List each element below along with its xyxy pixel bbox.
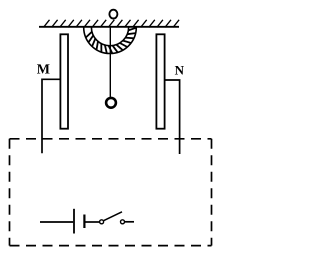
pendulum ball	[106, 98, 116, 108]
protractor scale hatch ticks	[86, 28, 137, 54]
battery short plate	[83, 215, 85, 229]
wire from switch	[125, 221, 134, 223]
pendulum string	[109, 27, 111, 98]
wire battery to switch	[86, 221, 100, 223]
dashed box right edge	[211, 139, 213, 246]
svg-text:N: N	[175, 63, 185, 78]
wire from plate M down into box	[42, 79, 60, 153]
plate N	[156, 34, 164, 128]
switch lever	[104, 212, 122, 221]
svg-text:M: M	[37, 63, 50, 78]
ceiling hatch ticks	[44, 20, 180, 28]
ceiling line	[39, 26, 179, 28]
dashed box top edge	[10, 138, 212, 140]
wire from plate N down into box	[165, 80, 180, 154]
switch terminal 1	[100, 220, 104, 224]
protractor scale inner arc	[91, 27, 128, 46]
dashed box left edge	[9, 139, 11, 246]
switch terminal 2	[121, 220, 125, 224]
protractor scale outer arc	[84, 27, 137, 53]
dashed box bottom edge	[10, 245, 212, 247]
plate M	[60, 34, 68, 128]
battery long plate	[73, 209, 75, 234]
wire to battery	[40, 221, 73, 223]
label O (pivot point)	[109, 10, 117, 19]
